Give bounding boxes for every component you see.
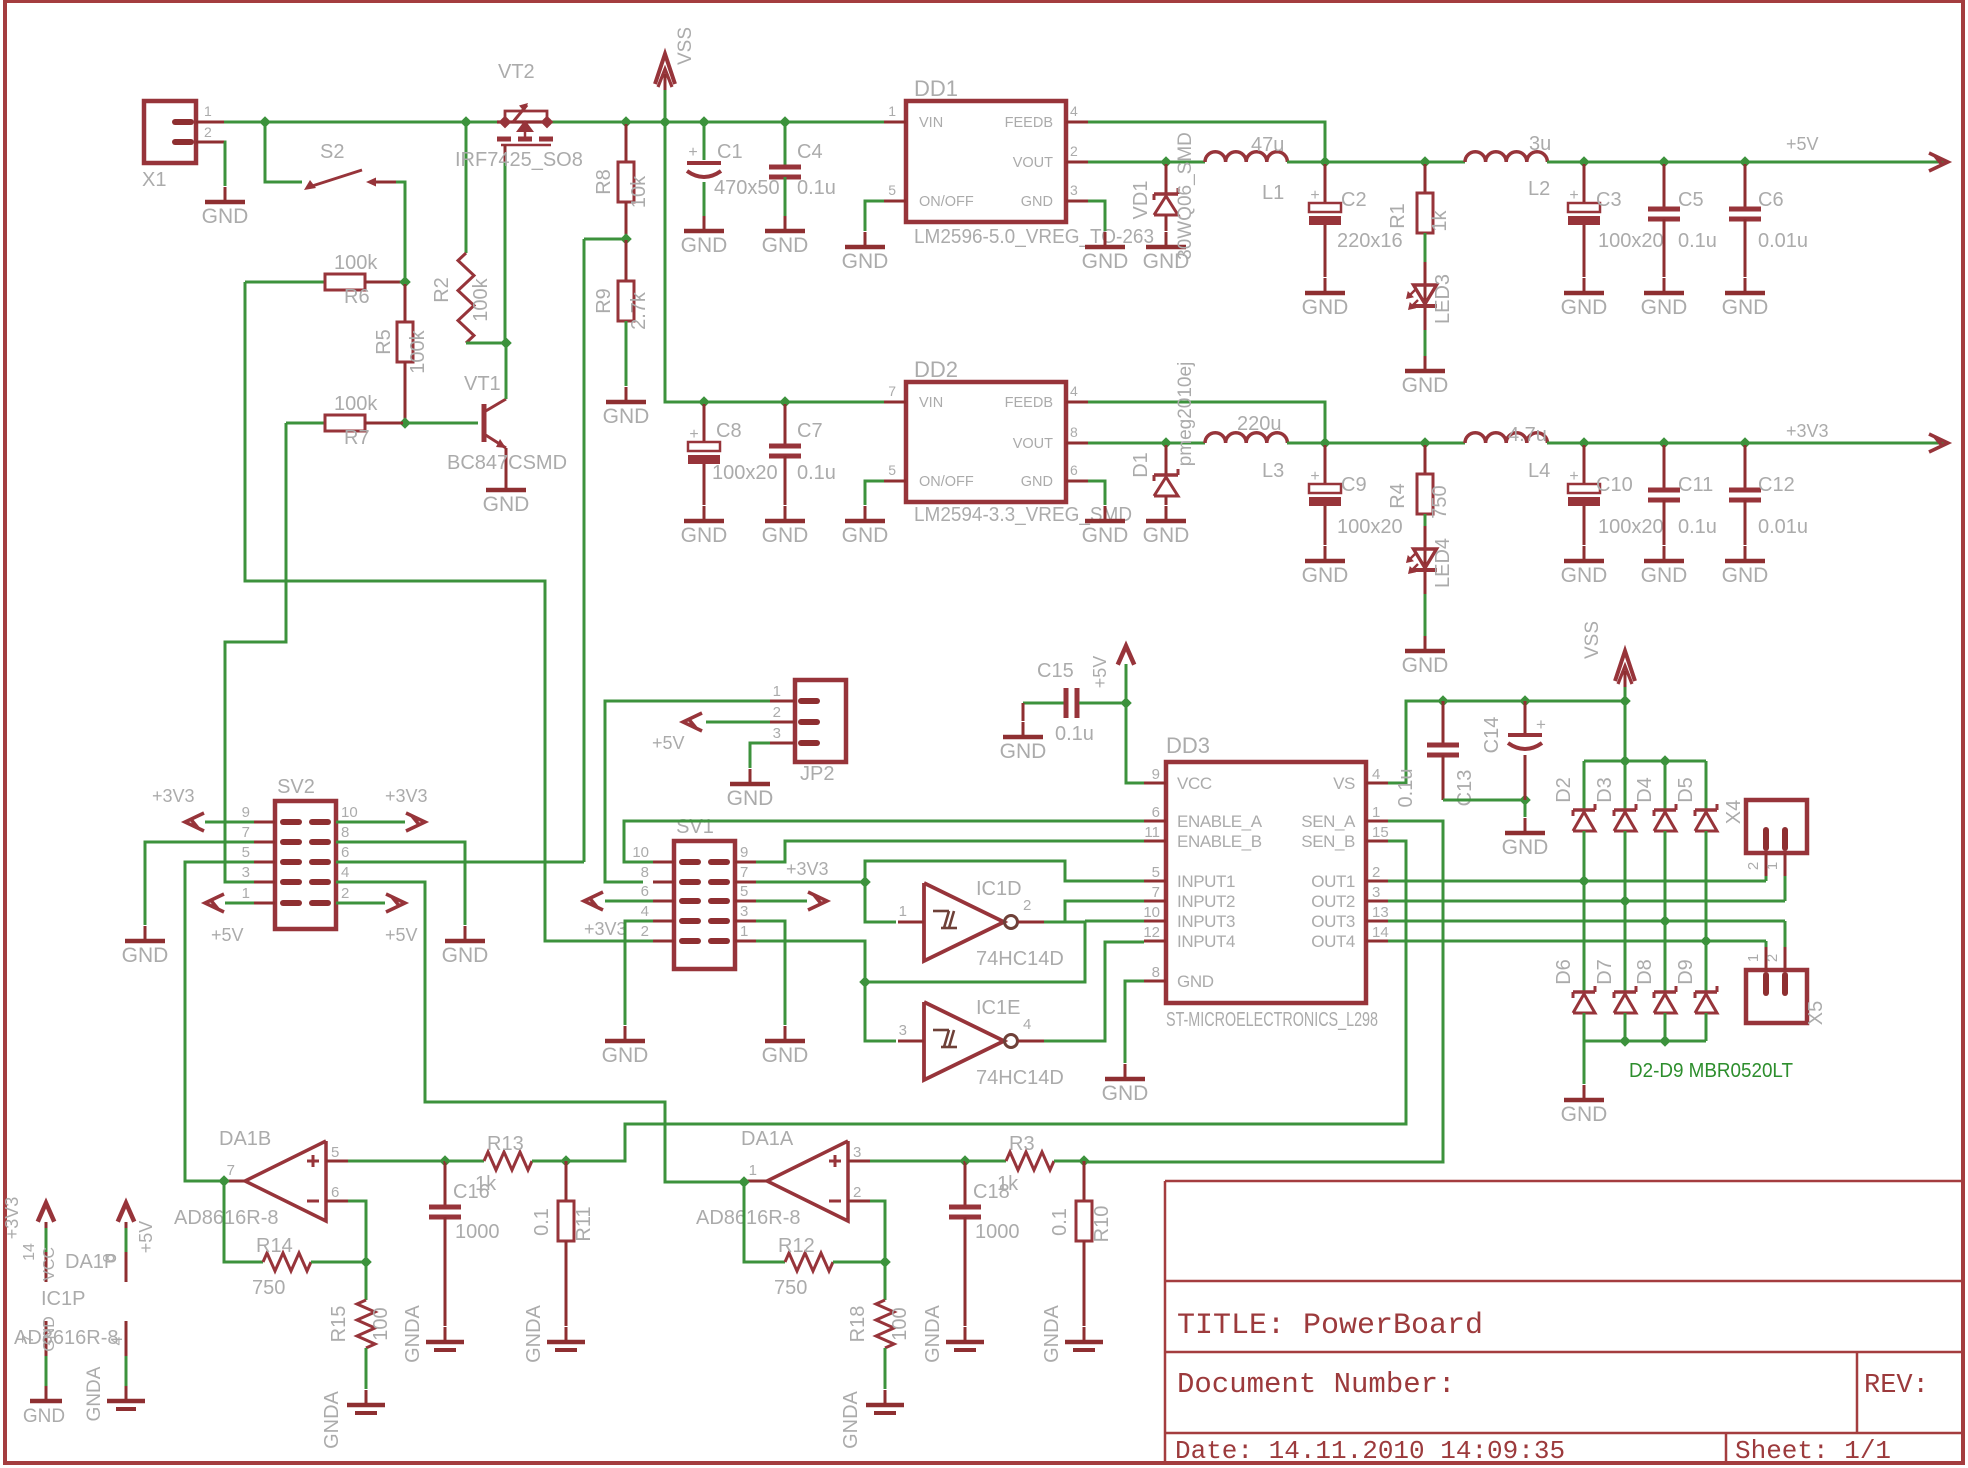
- svg-text:GND: GND: [1561, 296, 1608, 319]
- svg-text:8: 8: [641, 864, 649, 881]
- svg-text:3: 3: [1070, 182, 1078, 198]
- svg-text:+: +: [1536, 715, 1546, 734]
- svg-text:GND: GND: [1561, 564, 1608, 587]
- svg-text:750: 750: [252, 1277, 285, 1299]
- svg-text:GNDA: GNDA: [922, 1304, 944, 1362]
- svg-text:VCC: VCC: [1177, 774, 1212, 793]
- svg-text:14: 14: [21, 1243, 38, 1261]
- svg-text:5: 5: [740, 883, 748, 900]
- svg-text:220u: 220u: [1237, 413, 1282, 435]
- svg-text:VSS: VSS: [675, 27, 696, 65]
- svg-text:+5V: +5V: [136, 1221, 156, 1254]
- svg-text:D9: D9: [1675, 959, 1697, 985]
- svg-text:+3V3: +3V3: [152, 786, 195, 806]
- svg-text:ENABLE_B: ENABLE_B: [1177, 832, 1262, 851]
- svg-text:OUT3: OUT3: [1311, 912, 1355, 931]
- svg-text:+3V3: +3V3: [786, 859, 829, 879]
- svg-text:0.1u: 0.1u: [1395, 769, 1417, 808]
- svg-text:3: 3: [242, 864, 250, 881]
- svg-text:C14: C14: [1481, 717, 1503, 754]
- svg-text:7: 7: [242, 824, 250, 841]
- svg-text:GNDA: GNDA: [840, 1390, 862, 1448]
- svg-text:R5: R5: [373, 329, 395, 355]
- svg-text:4: 4: [641, 903, 649, 920]
- svg-text:+5V: +5V: [385, 925, 418, 945]
- svg-text:100k: 100k: [334, 393, 378, 415]
- svg-text:INPUT1: INPUT1: [1177, 872, 1235, 891]
- svg-text:LED3: LED3: [1432, 274, 1454, 324]
- svg-text:1: 1: [888, 103, 896, 119]
- svg-text:SEN_A: SEN_A: [1301, 812, 1356, 831]
- svg-text:GND: GND: [842, 524, 889, 547]
- svg-text:0.01u: 0.01u: [1758, 516, 1808, 538]
- svg-text:8: 8: [341, 824, 349, 841]
- svg-text:VSS: VSS: [1582, 621, 1603, 659]
- svg-text:GND: GND: [603, 405, 650, 428]
- svg-text:L2: L2: [1528, 178, 1550, 200]
- svg-text:4: 4: [109, 1336, 126, 1345]
- svg-text:C9: C9: [1341, 474, 1367, 496]
- svg-text:5: 5: [1152, 864, 1160, 881]
- svg-text:GND: GND: [1722, 564, 1769, 587]
- svg-text:0.01u: 0.01u: [1758, 230, 1808, 252]
- svg-text:LM2596-5.0_VREG_TO-263: LM2596-5.0_VREG_TO-263: [914, 226, 1154, 248]
- svg-text:100k: 100k: [334, 252, 378, 274]
- svg-text:C6: C6: [1758, 189, 1784, 211]
- svg-text:3: 3: [1372, 884, 1380, 901]
- svg-text:INPUT2: INPUT2: [1177, 892, 1235, 911]
- svg-text:0.1: 0.1: [1049, 1208, 1071, 1236]
- svg-text:0.1u: 0.1u: [797, 177, 836, 199]
- svg-text:GND: GND: [762, 234, 809, 257]
- svg-text:D5: D5: [1675, 777, 1697, 803]
- svg-text:8: 8: [1152, 964, 1160, 981]
- svg-text:C11: C11: [1678, 474, 1713, 496]
- svg-text:Sheet: 1/1: Sheet: 1/1: [1735, 1436, 1891, 1466]
- svg-text:VCC: VCC: [41, 1247, 58, 1281]
- svg-text:R7: R7: [344, 427, 370, 449]
- svg-text:2: 2: [773, 704, 781, 721]
- svg-text:GNDA: GNDA: [321, 1390, 343, 1448]
- svg-text:IC1E: IC1E: [976, 997, 1020, 1019]
- svg-text:30WQ06_SMD: 30WQ06_SMD: [1175, 132, 1196, 260]
- svg-text:C3: C3: [1596, 189, 1622, 211]
- svg-text:R1: R1: [1387, 203, 1409, 229]
- svg-text:100k: 100k: [470, 277, 492, 321]
- svg-text:1: 1: [899, 903, 907, 920]
- svg-text:IRF7425_SO8: IRF7425_SO8: [455, 149, 583, 171]
- svg-text:X1: X1: [142, 169, 166, 191]
- svg-text:D4: D4: [1634, 777, 1656, 803]
- svg-text:+5V: +5V: [211, 925, 244, 945]
- svg-text:1000: 1000: [455, 1221, 500, 1243]
- svg-text:OUT1: OUT1: [1311, 872, 1355, 891]
- svg-text:R18: R18: [847, 1306, 869, 1343]
- svg-text:750: 750: [1429, 485, 1451, 518]
- svg-text:D2-D9 MBR0520LT: D2-D9 MBR0520LT: [1629, 1060, 1793, 1082]
- svg-text:1k: 1k: [1429, 209, 1451, 231]
- svg-text:10k: 10k: [628, 175, 650, 208]
- svg-text:+: +: [1569, 187, 1578, 204]
- svg-text:C5: C5: [1678, 189, 1704, 211]
- svg-text:R3: R3: [1009, 1133, 1035, 1155]
- svg-text:L4: L4: [1528, 460, 1550, 482]
- svg-text:GND: GND: [842, 250, 889, 273]
- svg-text:+5V: +5V: [652, 733, 685, 753]
- svg-text:100: 100: [370, 1307, 392, 1340]
- svg-text:GND: GND: [1722, 296, 1769, 319]
- svg-text:0.1u: 0.1u: [1678, 230, 1717, 252]
- svg-text:R11: R11: [573, 1206, 595, 1241]
- svg-text:R9: R9: [593, 288, 615, 314]
- svg-text:Document Number:: Document Number:: [1177, 1368, 1455, 1401]
- svg-text:ENABLE_A: ENABLE_A: [1177, 812, 1263, 831]
- svg-text:7: 7: [888, 383, 896, 399]
- svg-text:C8: C8: [716, 420, 742, 442]
- svg-text:+5V: +5V: [1090, 656, 1110, 689]
- svg-text:GND: GND: [681, 234, 728, 257]
- svg-text:4: 4: [1070, 383, 1078, 399]
- svg-text:GND: GND: [483, 493, 530, 516]
- svg-text:VIN: VIN: [919, 395, 943, 411]
- svg-text:R6: R6: [344, 286, 370, 308]
- svg-text:7: 7: [1152, 884, 1160, 901]
- svg-text:R8: R8: [593, 169, 615, 195]
- svg-text:L1: L1: [1262, 182, 1284, 204]
- svg-text:0.1u: 0.1u: [1055, 723, 1094, 745]
- svg-text:GND: GND: [1021, 474, 1053, 490]
- svg-text:C10: C10: [1596, 474, 1633, 496]
- svg-text:1: 1: [773, 683, 781, 700]
- svg-text:10: 10: [632, 844, 649, 861]
- svg-text:10: 10: [1143, 904, 1160, 921]
- svg-text:GND: GND: [1641, 564, 1688, 587]
- svg-text:X4: X4: [1723, 800, 1745, 824]
- svg-text:VS: VS: [1333, 774, 1355, 793]
- svg-text:+5V: +5V: [1786, 134, 1819, 154]
- svg-text:D2: D2: [1553, 777, 1575, 803]
- svg-text:5: 5: [888, 462, 896, 478]
- svg-text:3: 3: [853, 1144, 861, 1161]
- svg-text:8: 8: [101, 1253, 118, 1262]
- svg-text:+3V3: +3V3: [584, 919, 627, 939]
- svg-text:R10: R10: [1091, 1206, 1113, 1243]
- svg-text:4: 4: [1372, 766, 1380, 783]
- svg-text:R15: R15: [328, 1306, 350, 1343]
- svg-text:1: 1: [1372, 804, 1380, 821]
- svg-text:1k: 1k: [475, 1173, 497, 1195]
- svg-text:74HC14D: 74HC14D: [976, 948, 1064, 970]
- svg-text:GND: GND: [1302, 296, 1349, 319]
- svg-text:1: 1: [1764, 862, 1781, 870]
- svg-text:+3V3: +3V3: [2, 1197, 22, 1240]
- svg-text:+: +: [1569, 468, 1578, 485]
- svg-text:1k: 1k: [997, 1173, 1019, 1195]
- svg-text:SEN_B: SEN_B: [1301, 832, 1355, 851]
- svg-text:100k: 100k: [407, 329, 429, 373]
- svg-text:100x20: 100x20: [1337, 516, 1403, 538]
- svg-text:2: 2: [1372, 864, 1380, 881]
- svg-text:1: 1: [1745, 954, 1762, 962]
- svg-text:4: 4: [1070, 103, 1078, 119]
- svg-text:ST-MICROELECTRONICS_L298: ST-MICROELECTRONICS_L298: [1166, 1009, 1378, 1031]
- svg-text:100x20: 100x20: [712, 462, 778, 484]
- svg-text:GND: GND: [727, 787, 774, 810]
- svg-text:VIN: VIN: [919, 115, 943, 131]
- svg-text:2: 2: [853, 1184, 861, 1201]
- svg-text:4: 4: [1023, 1016, 1031, 1033]
- svg-text:GND: GND: [1143, 524, 1190, 547]
- svg-text:SV2: SV2: [277, 776, 315, 798]
- svg-text:AD8616R-8: AD8616R-8: [174, 1207, 279, 1229]
- svg-text:GND: GND: [1302, 564, 1349, 587]
- svg-text:+: +: [1310, 187, 1319, 204]
- svg-text:GND: GND: [1561, 1103, 1608, 1126]
- svg-text:750: 750: [774, 1277, 807, 1299]
- svg-text:INPUT3: INPUT3: [1177, 912, 1235, 931]
- svg-text:470x50: 470x50: [714, 177, 780, 199]
- svg-text:1: 1: [749, 1162, 757, 1179]
- svg-text:Date: 14.11.2010 14:09:35: Date: 14.11.2010 14:09:35: [1175, 1436, 1565, 1466]
- svg-text:GND: GND: [41, 1316, 58, 1352]
- svg-text:VOUT: VOUT: [1013, 436, 1053, 452]
- svg-text:5: 5: [888, 182, 896, 198]
- svg-text:R2: R2: [431, 277, 453, 303]
- svg-text:10: 10: [341, 804, 358, 821]
- svg-text:4: 4: [341, 864, 349, 881]
- svg-text:D3: D3: [1594, 777, 1616, 803]
- svg-text:GND: GND: [1000, 740, 1047, 763]
- svg-text:74HC14D: 74HC14D: [976, 1067, 1064, 1089]
- svg-text:GND: GND: [23, 1406, 65, 1427]
- svg-text:X5: X5: [1805, 1001, 1827, 1025]
- svg-text:FEEDB: FEEDB: [1005, 115, 1053, 131]
- svg-text:GND: GND: [681, 524, 728, 547]
- svg-text:DA1A: DA1A: [741, 1128, 794, 1150]
- svg-text:L3: L3: [1262, 460, 1284, 482]
- svg-text:OUT2: OUT2: [1311, 892, 1355, 911]
- svg-text:ON/OFF: ON/OFF: [919, 474, 974, 490]
- svg-text:C2: C2: [1341, 189, 1367, 211]
- svg-text:2: 2: [341, 885, 349, 902]
- svg-text:BC847CSMD: BC847CSMD: [447, 452, 567, 474]
- svg-text:8: 8: [1070, 424, 1078, 440]
- svg-text:REV:: REV:: [1864, 1371, 1929, 1401]
- svg-text:pmeg2010ej: pmeg2010ej: [1175, 362, 1196, 467]
- svg-text:C15: C15: [1037, 660, 1074, 682]
- svg-text:GND: GND: [762, 1044, 809, 1067]
- svg-text:9: 9: [740, 844, 748, 861]
- svg-text:7: 7: [20, 1334, 37, 1343]
- svg-text:47u: 47u: [1251, 134, 1284, 156]
- svg-text:6: 6: [331, 1184, 339, 1201]
- svg-text:GNDA: GNDA: [402, 1304, 424, 1362]
- svg-text:220x16: 220x16: [1337, 230, 1403, 252]
- svg-text:100: 100: [889, 1307, 911, 1340]
- svg-text:6: 6: [341, 844, 349, 861]
- svg-text:S2: S2: [320, 141, 344, 163]
- svg-text:6: 6: [641, 883, 649, 900]
- svg-text:11: 11: [1144, 824, 1160, 841]
- svg-text:2: 2: [204, 124, 212, 140]
- svg-text:2.7k: 2.7k: [628, 291, 650, 330]
- svg-text:R4: R4: [1387, 483, 1409, 509]
- svg-text:GND: GND: [1402, 374, 1449, 397]
- svg-text:JP2: JP2: [800, 763, 834, 785]
- svg-text:DA1B: DA1B: [219, 1128, 271, 1150]
- svg-text:1: 1: [204, 103, 212, 119]
- svg-text:SV1: SV1: [676, 816, 714, 838]
- svg-text:GND: GND: [202, 205, 249, 228]
- svg-text:100x20: 100x20: [1598, 516, 1664, 538]
- svg-text:IC1D: IC1D: [976, 878, 1022, 900]
- svg-text:R13: R13: [487, 1133, 524, 1155]
- svg-text:5: 5: [242, 844, 250, 861]
- svg-text:1: 1: [740, 923, 748, 940]
- svg-text:OUT4: OUT4: [1311, 932, 1355, 951]
- svg-text:GND: GND: [1082, 524, 1129, 547]
- svg-text:TITLE: PowerBoard: TITLE: PowerBoard: [1177, 1309, 1483, 1343]
- svg-text:100x20: 100x20: [1598, 230, 1664, 252]
- svg-text:GND: GND: [762, 524, 809, 547]
- svg-text:2: 2: [1070, 143, 1078, 159]
- svg-text:2: 2: [1764, 954, 1781, 962]
- svg-text:2: 2: [1745, 862, 1762, 870]
- svg-text:3u: 3u: [1529, 133, 1551, 155]
- svg-text:GND: GND: [1102, 1082, 1149, 1105]
- svg-text:3: 3: [899, 1022, 907, 1039]
- svg-text:+: +: [689, 426, 698, 443]
- svg-text:+: +: [1310, 468, 1319, 485]
- svg-text:0.1u: 0.1u: [1678, 516, 1717, 538]
- svg-text:0.1u: 0.1u: [797, 462, 836, 484]
- svg-text:3: 3: [740, 903, 748, 920]
- svg-text:D8: D8: [1634, 959, 1656, 985]
- svg-text:GND: GND: [1641, 296, 1688, 319]
- svg-text:C4: C4: [797, 141, 823, 163]
- svg-text:1: 1: [242, 885, 250, 902]
- svg-text:5: 5: [331, 1144, 339, 1161]
- svg-text:12: 12: [1143, 924, 1160, 941]
- svg-text:4.7u: 4.7u: [1508, 424, 1547, 446]
- svg-text:DD2: DD2: [914, 357, 958, 382]
- svg-text:GND: GND: [442, 944, 489, 967]
- svg-text:14: 14: [1372, 924, 1389, 941]
- svg-text:GND: GND: [602, 1044, 649, 1067]
- svg-text:VD1: VD1: [1130, 181, 1152, 220]
- svg-text:GND: GND: [1177, 972, 1214, 991]
- svg-text:R12: R12: [778, 1235, 815, 1257]
- svg-text:+3V3: +3V3: [385, 786, 428, 806]
- svg-text:6: 6: [1152, 804, 1160, 821]
- svg-text:C1: C1: [717, 141, 743, 163]
- svg-text:GND: GND: [122, 944, 169, 967]
- svg-text:GNDA: GNDA: [1041, 1304, 1063, 1362]
- svg-text:GND: GND: [1082, 250, 1129, 273]
- svg-text:3: 3: [773, 725, 781, 742]
- svg-text:GND: GND: [1021, 194, 1053, 210]
- svg-text:D1: D1: [1130, 452, 1152, 478]
- svg-text:9: 9: [1152, 766, 1160, 783]
- svg-text:AD8616R-8: AD8616R-8: [696, 1207, 801, 1229]
- svg-text:GNDA: GNDA: [523, 1304, 545, 1362]
- svg-text:1000: 1000: [975, 1221, 1020, 1243]
- svg-text:D6: D6: [1553, 959, 1575, 985]
- svg-text:7: 7: [740, 864, 748, 881]
- svg-text:7: 7: [227, 1162, 235, 1179]
- svg-text:D7: D7: [1594, 959, 1616, 985]
- svg-text:C12: C12: [1758, 474, 1795, 496]
- svg-text:R14: R14: [256, 1235, 293, 1257]
- svg-text:VOUT: VOUT: [1013, 155, 1053, 171]
- svg-text:VT1: VT1: [464, 373, 501, 395]
- svg-text:C7: C7: [797, 420, 823, 442]
- svg-text:FEEDB: FEEDB: [1005, 395, 1053, 411]
- svg-text:LED4: LED4: [1432, 538, 1454, 588]
- svg-text:0.1: 0.1: [531, 1208, 553, 1236]
- svg-text:INPUT4: INPUT4: [1177, 932, 1235, 951]
- svg-text:13: 13: [1372, 904, 1389, 921]
- svg-text:+: +: [688, 144, 697, 161]
- svg-text:+3V3: +3V3: [1786, 421, 1829, 441]
- svg-text:2: 2: [1023, 897, 1031, 914]
- svg-text:15: 15: [1372, 824, 1389, 841]
- svg-text:GND: GND: [1402, 654, 1449, 677]
- svg-text:IC1P: IC1P: [41, 1288, 85, 1310]
- svg-text:GNDA: GNDA: [84, 1366, 105, 1421]
- svg-text:2: 2: [641, 923, 649, 940]
- svg-text:VT2: VT2: [498, 61, 535, 83]
- svg-text:DD3: DD3: [1166, 733, 1210, 758]
- svg-text:DD1: DD1: [914, 76, 958, 101]
- svg-text:9: 9: [242, 804, 250, 821]
- svg-text:GND: GND: [1502, 836, 1549, 859]
- svg-text:ON/OFF: ON/OFF: [919, 194, 974, 210]
- svg-text:6: 6: [1070, 462, 1078, 478]
